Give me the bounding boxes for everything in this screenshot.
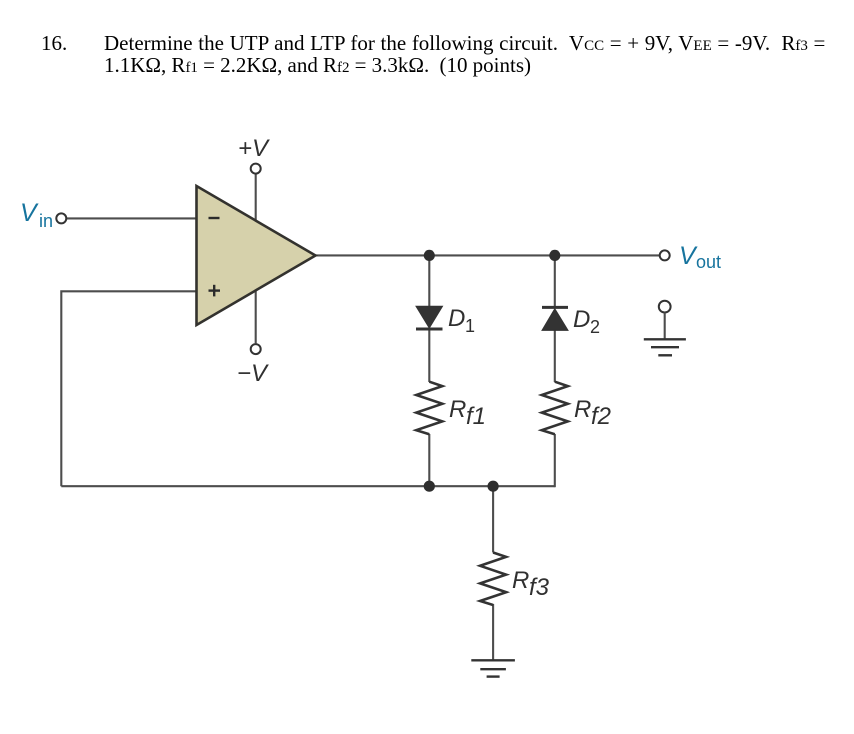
wire D2 branch upper	[554, 255, 556, 308]
svg-text:R: R	[449, 396, 466, 423]
resistor Rf1	[416, 382, 486, 435]
svg-text:R: R	[574, 396, 591, 423]
ground reference at output (open terminal)	[644, 301, 686, 356]
svg-text:2: 2	[590, 317, 600, 337]
wire Rf3 branch top	[492, 486, 494, 552]
resistor Rf3	[480, 553, 550, 606]
svg-text:f2: f2	[591, 403, 611, 430]
svg-text:in: in	[39, 211, 53, 231]
svg-text:D: D	[448, 305, 465, 332]
node output junction A	[424, 250, 435, 261]
svg-text:1: 1	[465, 316, 475, 336]
svg-text:D: D	[573, 306, 590, 333]
wire +V stem	[255, 174, 257, 222]
node bottom junction D	[488, 481, 499, 492]
svg-text:f3: f3	[529, 574, 550, 601]
wire op-amp output	[315, 254, 659, 256]
problem statement text	[104, 34, 825, 80]
svg-text:out: out	[696, 252, 721, 272]
ground under Rf3	[471, 660, 515, 676]
node output junction B	[549, 250, 560, 261]
resistor Rf2	[542, 382, 611, 435]
wire feedback left loop	[61, 291, 197, 486]
diode D2	[542, 306, 600, 337]
diode D1	[416, 305, 475, 336]
wire Rf3 to ground	[492, 604, 494, 660]
wire bottom feedback rail	[61, 485, 555, 487]
op-amp U1	[197, 186, 316, 325]
wire Rf2 to bottom rail	[554, 434, 556, 487]
svg-text:−V: −V	[237, 360, 269, 387]
problem number 16	[41, 34, 67, 54]
node bottom junction C	[424, 481, 435, 492]
svg-text:V: V	[20, 199, 39, 227]
Vout output terminal	[660, 242, 721, 272]
+V supply terminal	[238, 135, 270, 174]
-V supply terminal	[237, 344, 269, 387]
wire D1 to Rf1	[428, 329, 430, 382]
wire -V stem	[255, 289, 257, 343]
wire D2 to Rf2	[554, 330, 556, 382]
svg-text:+V: +V	[238, 135, 270, 162]
Vin input terminal	[20, 199, 66, 231]
wire Vin to inverting input	[67, 217, 197, 219]
svg-text:R: R	[512, 567, 529, 594]
svg-text:f1: f1	[466, 403, 486, 430]
wire D1 branch upper	[428, 255, 430, 307]
wire Rf1 to bottom rail	[428, 434, 430, 486]
